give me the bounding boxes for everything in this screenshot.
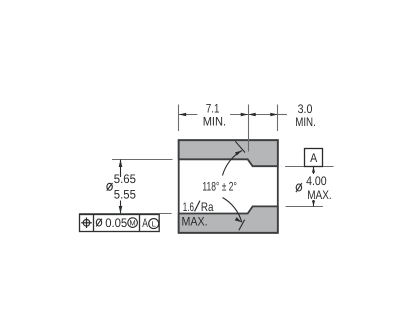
feature control frame <box>80 215 160 232</box>
svg-text:MAX.: MAX. <box>182 215 208 229</box>
svg-text:L: L <box>152 219 156 228</box>
label 118 deg plus/minus 2 deg <box>202 179 237 193</box>
extension line left (7.1 dim) <box>178 105 180 132</box>
angle extension line lower <box>239 220 245 231</box>
label diameter 5.65/5.55 <box>107 172 136 202</box>
extension line bore top (5.65) <box>112 159 173 161</box>
svg-text:A: A <box>142 216 148 230</box>
tolerance 0.05 with M modifier <box>96 216 137 230</box>
dimension arrows 4.00 <box>312 167 315 207</box>
datum reference A with L modifier <box>142 216 158 230</box>
svg-text:MAX.: MAX. <box>307 188 332 202</box>
angle dimension arc lower <box>223 198 242 223</box>
svg-text:4.00: 4.00 <box>306 174 327 188</box>
svg-text:MIN.: MIN. <box>203 115 226 129</box>
svg-text:0.05: 0.05 <box>105 216 127 230</box>
svg-text:Ra: Ra <box>201 200 214 214</box>
label 7.1 MIN. <box>203 102 226 129</box>
svg-text:7.1: 7.1 <box>206 102 220 116</box>
surface finish 1.6/Ra <box>183 200 214 214</box>
dimension line 3.0 <box>248 113 287 117</box>
dimension line 7.1 <box>179 113 249 117</box>
angle extension line upper <box>235 141 245 152</box>
svg-text:MIN.: MIN. <box>295 115 316 129</box>
extension line hole bottom right <box>286 206 323 208</box>
label 3.0 MIN. <box>295 102 316 129</box>
svg-text:A: A <box>310 151 318 165</box>
svg-text:118° ± 2°: 118° ± 2° <box>202 179 237 193</box>
part section lower wall <box>179 206 278 232</box>
part section upper wall <box>179 140 278 166</box>
extension line bore bottom (5.55) <box>79 213 172 215</box>
svg-text:5.55: 5.55 <box>114 188 136 202</box>
datum A box <box>305 149 323 167</box>
svg-text:3.0: 3.0 <box>298 102 313 116</box>
extension line hole top right <box>285 166 334 168</box>
label diameter 4.00 MAX. <box>296 174 332 202</box>
extension line middle (bore depth) <box>248 105 250 152</box>
dimension arrows bore diameter <box>119 160 123 214</box>
position symbol <box>81 218 92 229</box>
svg-text:1.6: 1.6 <box>183 200 194 214</box>
svg-text:5.65: 5.65 <box>114 172 136 186</box>
extension line right (3.0 dim) <box>277 105 279 132</box>
part body outline <box>179 140 278 233</box>
svg-text:M: M <box>129 218 135 227</box>
surface finish MAX. <box>182 215 208 229</box>
angle dimension arc upper <box>223 151 243 176</box>
